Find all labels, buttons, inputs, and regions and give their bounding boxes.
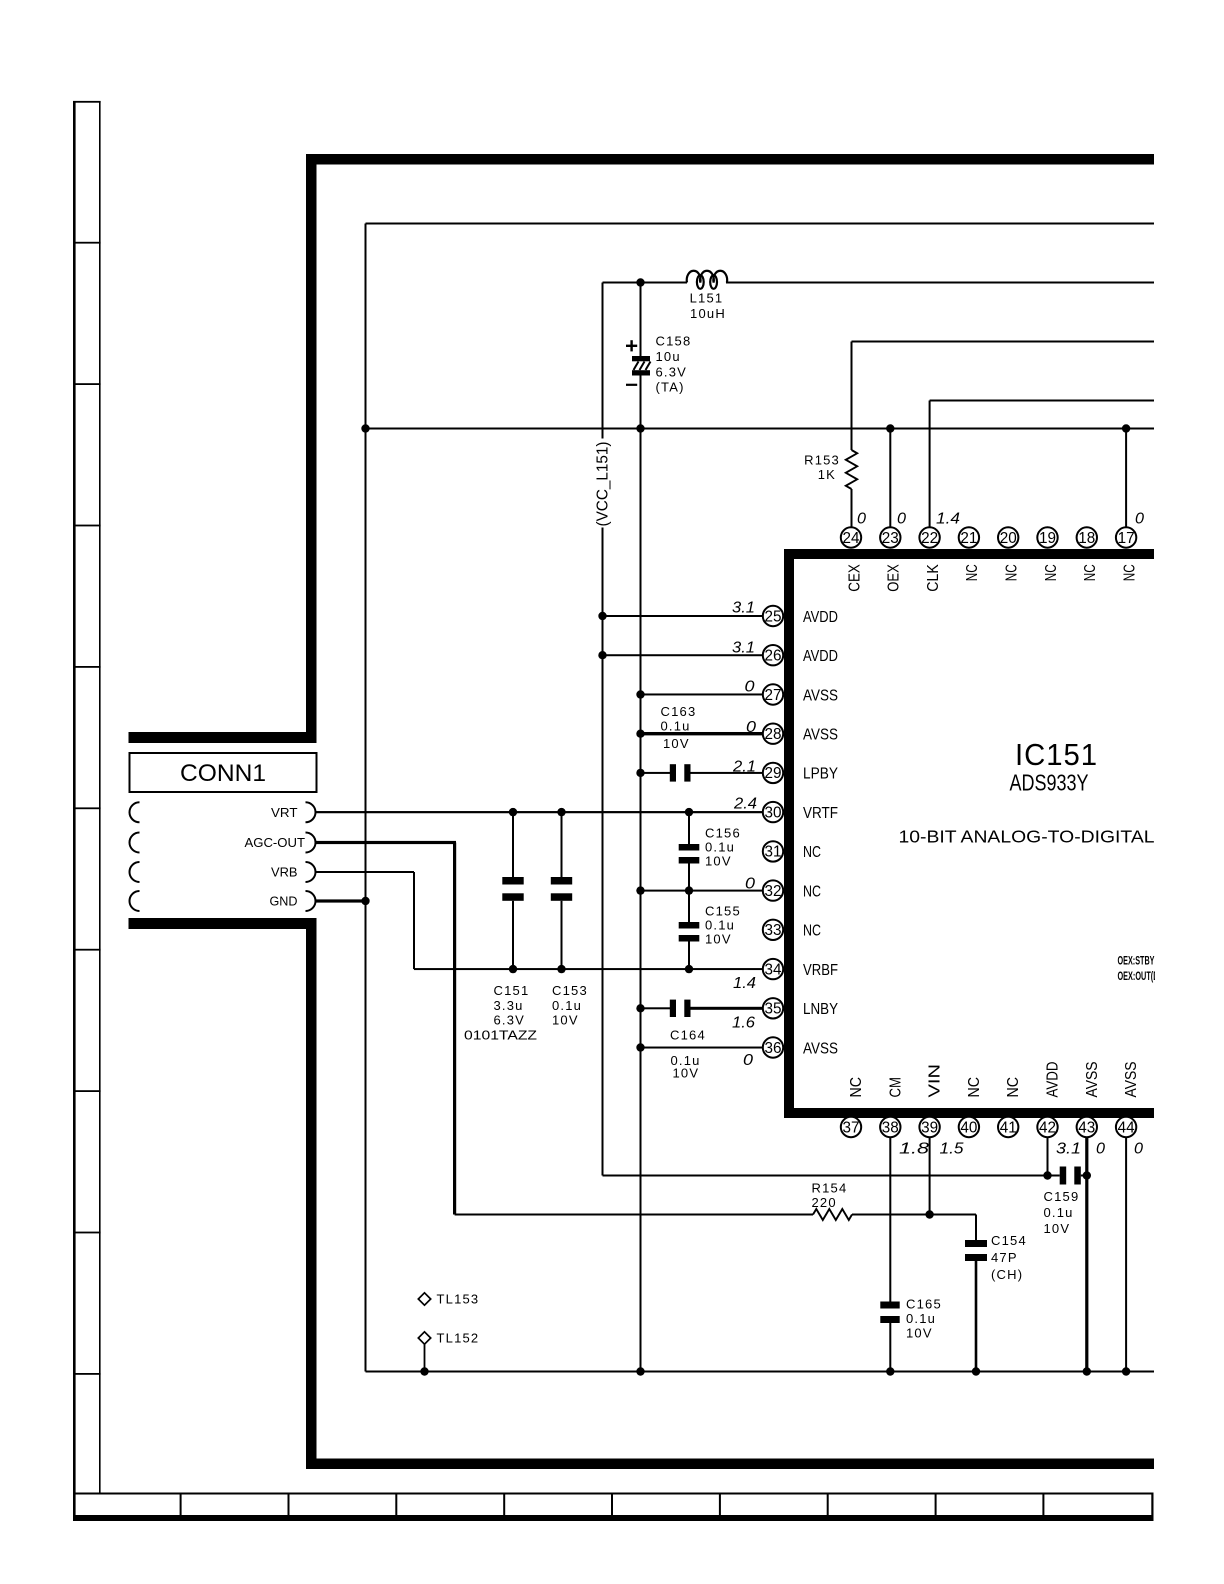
svg-text:2.4: 2.4 — [733, 796, 757, 813]
svg-text:220: 220 — [812, 1195, 837, 1210]
svg-text:32: 32 — [765, 883, 782, 900]
svg-text:10V: 10V — [705, 932, 732, 947]
svg-text:VRBF: VRBF — [803, 962, 838, 979]
svg-text:0: 0 — [1135, 511, 1144, 528]
svg-text:25: 25 — [765, 608, 782, 625]
svg-text:39: 39 — [921, 1119, 938, 1136]
svg-text:C159: C159 — [1044, 1189, 1080, 1204]
svg-text:10V: 10V — [705, 854, 732, 869]
svg-text:LPBY: LPBY — [803, 766, 838, 783]
svg-text:C154: C154 — [991, 1233, 1027, 1248]
svg-text:NC: NC — [1082, 564, 1099, 581]
svg-text:AVDD: AVDD — [803, 609, 838, 626]
svg-text:2.1: 2.1 — [732, 759, 756, 776]
svg-text:IC151: IC151 — [1015, 737, 1098, 772]
svg-text:36: 36 — [765, 1040, 782, 1057]
svg-text:3.1: 3.1 — [732, 640, 755, 657]
svg-text:GND: GND — [270, 894, 298, 909]
svg-text:10-BIT ANALOG-TO-DIGITAL: 10-BIT ANALOG-TO-DIGITAL — [899, 827, 1155, 847]
svg-text:6.3V: 6.3V — [656, 365, 688, 380]
svg-text:CLK: CLK — [925, 564, 942, 592]
svg-text:NC: NC — [1005, 1077, 1022, 1098]
svg-text:C158: C158 — [656, 334, 692, 349]
svg-text:NC: NC — [848, 1077, 865, 1098]
svg-text:26: 26 — [765, 648, 782, 665]
svg-text:10u: 10u — [656, 349, 681, 364]
svg-text:40: 40 — [960, 1119, 977, 1136]
svg-text:0.1u: 0.1u — [705, 918, 735, 933]
svg-text:19: 19 — [1039, 530, 1056, 547]
svg-text:VRTF: VRTF — [803, 805, 838, 822]
svg-text:CEX: CEX — [846, 564, 863, 592]
svg-text:6.3V: 6.3V — [494, 1013, 526, 1028]
svg-text:1.4: 1.4 — [936, 511, 960, 528]
svg-text:29: 29 — [765, 765, 782, 782]
svg-text:3.1: 3.1 — [1056, 1141, 1081, 1158]
svg-text:1K: 1K — [818, 467, 836, 482]
svg-text:0: 0 — [897, 511, 906, 528]
svg-text:TL152: TL152 — [437, 1331, 480, 1346]
svg-text:NC: NC — [966, 1077, 983, 1098]
svg-text:22: 22 — [921, 530, 938, 547]
svg-text:47P: 47P — [991, 1250, 1018, 1265]
svg-text:CONN1: CONN1 — [180, 760, 266, 787]
svg-text:NC: NC — [1121, 564, 1138, 581]
svg-text:10V: 10V — [673, 1066, 700, 1081]
svg-text:18: 18 — [1078, 530, 1095, 547]
svg-text:3.3u: 3.3u — [494, 998, 524, 1013]
svg-text:L151: L151 — [690, 290, 724, 305]
svg-text:20: 20 — [1000, 530, 1017, 547]
svg-text:17: 17 — [1118, 530, 1135, 547]
svg-text:10V: 10V — [663, 736, 690, 751]
svg-text:C155: C155 — [705, 904, 741, 919]
svg-text:41: 41 — [1000, 1119, 1017, 1136]
svg-text:R154: R154 — [812, 1181, 848, 1196]
svg-text:(TA): (TA) — [656, 380, 685, 395]
svg-text:1.5: 1.5 — [940, 1141, 964, 1158]
svg-text:30: 30 — [765, 804, 782, 821]
svg-text:0101TAZZ: 0101TAZZ — [464, 1027, 537, 1042]
svg-text:0: 0 — [743, 1052, 753, 1069]
svg-text:AVDD: AVDD — [803, 648, 838, 665]
svg-text:C164: C164 — [670, 1028, 706, 1043]
svg-text:0.1u: 0.1u — [552, 998, 582, 1013]
svg-text:R153: R153 — [804, 453, 840, 468]
svg-text:NC: NC — [964, 564, 981, 581]
svg-text:0: 0 — [745, 876, 755, 893]
svg-text:NC: NC — [803, 883, 821, 900]
svg-text:0.1u: 0.1u — [1044, 1205, 1074, 1220]
svg-text:NC: NC — [1043, 564, 1060, 581]
svg-text:NC: NC — [1004, 564, 1021, 581]
svg-text:23: 23 — [882, 530, 899, 547]
svg-text:28: 28 — [765, 726, 782, 743]
svg-text:21: 21 — [960, 530, 977, 547]
svg-text:VRT: VRT — [271, 805, 298, 820]
svg-text:24: 24 — [843, 530, 860, 547]
svg-text:1.6: 1.6 — [732, 1015, 755, 1032]
svg-text:ADS933Y: ADS933Y — [1010, 770, 1089, 796]
svg-text:OEX:OUT(D: OEX:OUT(D — [1118, 971, 1159, 983]
svg-text:0.1u: 0.1u — [906, 1311, 936, 1326]
svg-text:LNBY: LNBY — [803, 1001, 838, 1018]
svg-text:0: 0 — [746, 719, 756, 736]
svg-text:C151: C151 — [494, 983, 530, 998]
svg-text:OEX:STBY: OEX:STBY — [1118, 956, 1155, 968]
svg-text:0: 0 — [745, 679, 755, 696]
svg-text:NC: NC — [803, 923, 821, 940]
svg-text:34: 34 — [765, 961, 782, 978]
svg-text:NC: NC — [803, 844, 821, 861]
svg-text:C163: C163 — [661, 704, 697, 719]
svg-text:AGC-OUT: AGC-OUT — [245, 835, 306, 850]
svg-text:44: 44 — [1118, 1119, 1135, 1136]
svg-text:AVSS: AVSS — [1084, 1062, 1101, 1098]
svg-text:0: 0 — [857, 511, 866, 528]
svg-text:C153: C153 — [552, 983, 588, 998]
svg-text:3.1: 3.1 — [732, 600, 755, 617]
svg-text:33: 33 — [765, 922, 782, 939]
svg-text:0.1u: 0.1u — [705, 840, 735, 855]
svg-text:38: 38 — [882, 1119, 899, 1136]
svg-text:10uH: 10uH — [690, 306, 726, 321]
svg-text:OEX: OEX — [886, 564, 903, 592]
svg-text:TL153: TL153 — [437, 1292, 480, 1307]
svg-text:10V: 10V — [906, 1326, 933, 1341]
svg-text:0: 0 — [1134, 1141, 1143, 1158]
svg-text:42: 42 — [1039, 1119, 1056, 1136]
svg-text:35: 35 — [765, 1001, 782, 1018]
svg-text:0.1u: 0.1u — [661, 719, 691, 734]
svg-text:31: 31 — [765, 844, 782, 861]
svg-text:AVSS: AVSS — [1123, 1062, 1140, 1098]
svg-text:43: 43 — [1078, 1119, 1095, 1136]
svg-text:1.4: 1.4 — [733, 975, 756, 992]
svg-text:10V: 10V — [1044, 1221, 1071, 1236]
svg-text:AVSS: AVSS — [803, 1040, 838, 1057]
svg-text:0: 0 — [1096, 1141, 1105, 1158]
svg-text:(CH): (CH) — [991, 1267, 1023, 1282]
svg-text:AVSS: AVSS — [803, 687, 838, 704]
svg-text:27: 27 — [765, 687, 782, 704]
svg-text:10V: 10V — [552, 1013, 579, 1028]
svg-text:VIN: VIN — [927, 1064, 944, 1098]
svg-text:C165: C165 — [906, 1297, 942, 1312]
svg-text:VRB: VRB — [271, 865, 298, 880]
svg-text:C156: C156 — [705, 826, 741, 841]
svg-text:37: 37 — [843, 1119, 860, 1136]
svg-text:CM: CM — [887, 1077, 904, 1098]
svg-text:1.8: 1.8 — [899, 1141, 929, 1158]
svg-text:AVSS: AVSS — [803, 727, 838, 744]
svg-text:(VCC_L151): (VCC_L151) — [595, 442, 612, 527]
svg-text:AVDD: AVDD — [1045, 1062, 1062, 1098]
